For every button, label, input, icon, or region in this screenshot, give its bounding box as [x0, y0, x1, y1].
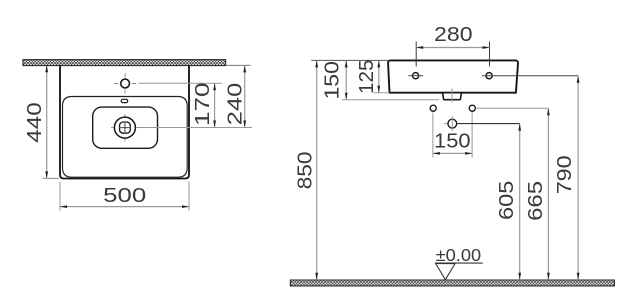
dim 500 ext lines: [59, 182, 61, 211]
svg-text:280: 280: [434, 24, 473, 46]
small circle right: [469, 105, 475, 111]
dim 440 line: [46, 66, 48, 178]
dim 150 bottom line: [433, 152, 472, 154]
svg-text:790: 790: [554, 155, 576, 194]
dim 500 arrows: [60, 205, 67, 208]
svg-text:150: 150: [434, 131, 471, 153]
overflow slot: [121, 99, 128, 102]
basin bottom ext line: [373, 92, 389, 94]
dim 240 arrows: [243, 65, 246, 72]
dim 240 line: [244, 65, 246, 127]
small circle left: [430, 105, 436, 111]
floor band hatched: [290, 280, 614, 286]
drain tab: [443, 93, 462, 100]
drain circle front: [448, 119, 457, 128]
svg-text:440: 440: [24, 102, 46, 143]
svg-text:665: 665: [525, 181, 547, 221]
dim 605 line: [519, 124, 521, 280]
mounting hole left tick: [408, 75, 423, 77]
dim 280 arrows: [416, 46, 423, 49]
dim 790 arrows: [577, 76, 580, 83]
dim 605 arrows: [518, 124, 521, 131]
ext line for 440 bottom: [43, 177, 60, 179]
ext line from wall bottom to 240 dim: [226, 64, 251, 66]
drain inner cross: [119, 127, 131, 129]
rim inner rounded rect: [63, 97, 188, 178]
dim 850 arrows: [315, 60, 318, 67]
bowl rounded rect: [93, 107, 158, 148]
drain circle ticks: [451, 116, 453, 131]
tab centerline: [451, 88, 453, 102]
dim 150 upper arrows: [345, 60, 348, 67]
basin front trapezoid: [388, 60, 518, 92]
dim 440 arrows: [45, 65, 48, 72]
svg-text:150: 150: [321, 61, 343, 100]
dim 150 bottom arrows: [433, 152, 440, 155]
datum underline: [435, 262, 483, 264]
faucet hole: [121, 79, 130, 88]
svg-text:500: 500: [103, 185, 146, 207]
mounting hole left: [413, 73, 419, 79]
drain ext line to 240 dim: [111, 127, 252, 129]
wall band hatched: [23, 60, 226, 66]
svg-text:240: 240: [224, 83, 246, 126]
dim 150 upper line: [345, 60, 347, 99]
dim 790 line: [577, 76, 579, 280]
dim 665 line: [547, 108, 549, 280]
svg-text:605: 605: [496, 181, 518, 221]
dim 500 line: [60, 206, 189, 208]
dim 280 ext lines: [415, 42, 417, 67]
drain inner rounded square: [120, 122, 131, 133]
ext line drain to 605: [458, 123, 520, 125]
mounting hole right tick + ext to 790: [482, 75, 578, 77]
drain outer circle: [114, 117, 135, 138]
dim 280 line: [416, 47, 489, 49]
ext line faucet to 170 dim: [139, 82, 223, 84]
basin outer outline: [60, 65, 189, 178]
datum triangle: [436, 264, 455, 280]
mounting hole right: [486, 73, 492, 79]
ext lines small circles down: [432, 113, 434, 158]
svg-text:±0.00: ±0.00: [436, 245, 482, 265]
svg-text:850: 850: [294, 151, 316, 189]
ext line small circle right to 665: [477, 107, 549, 109]
dim 665 arrows: [547, 108, 550, 115]
dim 850 line: [316, 60, 318, 279]
dim 125 arrows: [377, 60, 380, 67]
drain vertical centerline: [124, 114, 126, 142]
svg-text:170: 170: [192, 83, 214, 127]
dim 125 line: [378, 60, 380, 92]
ext line tab bottom: [342, 99, 439, 101]
svg-text:125: 125: [356, 59, 378, 94]
dim 170 line: [214, 83, 216, 127]
basin top ext line: [311, 59, 388, 61]
faucet center ticks: [114, 73, 136, 93]
dim 170 arrows: [213, 83, 216, 90]
